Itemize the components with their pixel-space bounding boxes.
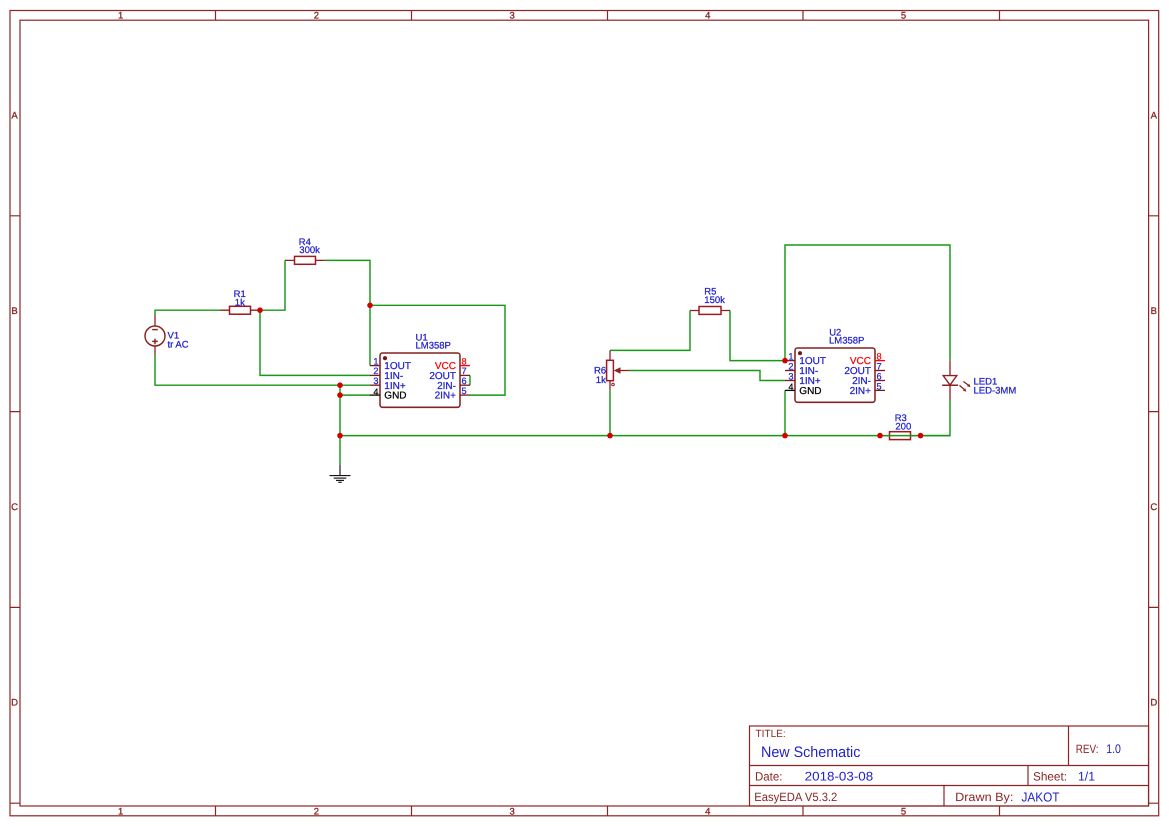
V1 name and value labels: [168, 330, 189, 350]
U2 pin 5 line: [875, 389, 885, 391]
R6 wiper arrowhead: [614, 367, 621, 373]
svg-text:A: A: [1151, 111, 1158, 122]
U2 pin 4 line: [785, 389, 795, 391]
node U2 pin4 bus: [782, 433, 788, 439]
svg-text:6: 6: [462, 376, 467, 386]
svg-text:1k: 1k: [596, 375, 606, 386]
svg-text:JAKOT: JAKOT: [1022, 790, 1060, 805]
svg-text:LM358P: LM358P: [416, 341, 451, 352]
svg-text:Date:: Date:: [755, 770, 782, 784]
wire R4 right to node: [325, 260, 370, 305]
wire LED top loop to U2 pin1: [785, 245, 950, 361]
wire R6 bottom to bus: [609, 390, 611, 435]
op-amp U2: [785, 348, 885, 402]
svg-text:2: 2: [373, 366, 378, 376]
svg-text:4: 4: [705, 806, 710, 817]
U1 pin 5 line: [460, 394, 470, 396]
svg-text:1: 1: [118, 11, 123, 22]
U2 pin numbers: [788, 351, 881, 392]
node U2 pin1: [782, 358, 788, 364]
wire U1 pin7 to pin6: [469, 375, 471, 385]
ground: [330, 465, 351, 482]
U1 pin 4 line: [370, 394, 380, 396]
svg-text:2IN+: 2IN+: [435, 391, 457, 402]
bottom ruler ticks: [216, 806, 1000, 816]
wire node to U1 pin5 loop: [370, 305, 505, 395]
svg-text:B: B: [11, 306, 17, 317]
U2 pin 1 line: [785, 360, 795, 362]
U2 pin 8 line: [875, 360, 885, 362]
wire R5 left to R6 top: [610, 311, 690, 351]
svg-text:1: 1: [788, 351, 793, 361]
wire bottom bus: [340, 435, 880, 437]
wire R1 junction down to U1 pin2: [260, 310, 370, 375]
node R6 bottom: [607, 433, 613, 439]
svg-text:Drawn By:: Drawn By:: [955, 790, 1013, 804]
svg-text:7: 7: [877, 361, 882, 371]
svg-text:7: 7: [462, 366, 467, 376]
U1 pin 6 line: [460, 384, 470, 386]
svg-text:3: 3: [509, 806, 514, 817]
svg-text:LED-3MM: LED-3MM: [974, 385, 1017, 396]
resistor R5: [690, 307, 730, 315]
svg-text:LM358P: LM358P: [829, 336, 864, 347]
svg-text:A: A: [11, 111, 18, 122]
U1 pin 3 line: [370, 384, 380, 386]
LED LED1: [942, 361, 968, 401]
svg-text:2: 2: [314, 806, 319, 817]
svg-text:New Schematic: New Schematic: [761, 744, 861, 761]
op-amp U1: [370, 353, 470, 407]
node pin4 tee: [337, 392, 343, 398]
svg-text:1k: 1k: [235, 298, 245, 309]
U1 pin 7 line: [460, 374, 470, 376]
svg-text:D: D: [11, 698, 18, 709]
svg-text:4: 4: [373, 387, 378, 397]
resistor R4: [285, 256, 325, 264]
svg-text:Sheet:: Sheet:: [1033, 770, 1067, 784]
U1 pin 2 line: [370, 374, 380, 376]
U2 pin 7 line: [875, 370, 885, 372]
svg-text:4: 4: [705, 11, 710, 22]
wire R5 right to U2 pin1: [730, 311, 785, 361]
U2 pin 6 line: [875, 380, 885, 382]
node R3 left: [877, 433, 883, 439]
svg-text:1/1: 1/1: [1078, 769, 1095, 783]
U1 pin name labels: [384, 361, 456, 402]
svg-text:1.0: 1.0: [1106, 742, 1121, 756]
svg-text:B: B: [1151, 306, 1157, 317]
svg-text:1: 1: [373, 356, 378, 366]
wire gnd vertical: [339, 385, 341, 465]
U2 pin 3 line: [785, 380, 795, 382]
LED arrow 1: [963, 382, 968, 386]
svg-text:1: 1: [118, 806, 123, 817]
LED1 name and value labels: [974, 376, 1017, 396]
svg-text:D: D: [1150, 698, 1157, 709]
node R1-right junction: [257, 307, 263, 313]
svg-text:2IN+: 2IN+: [850, 386, 872, 397]
svg-text:EasyEDA V5.3.2: EasyEDA V5.3.2: [754, 790, 837, 804]
U1 pin 1 line: [370, 365, 380, 367]
svg-text:3: 3: [373, 376, 378, 386]
svg-text:200: 200: [895, 422, 911, 433]
wire V1 top to R1: [155, 310, 220, 315]
R1 name and value labels: [234, 289, 246, 309]
wire R1 right to R4 left vertical: [260, 260, 285, 310]
U2 pin name labels: [799, 356, 871, 397]
wire node to U1 pin1: [369, 305, 371, 365]
svg-text:GND: GND: [384, 391, 406, 402]
svg-text:5: 5: [901, 11, 906, 22]
node R4-right junction: [367, 303, 373, 309]
svg-text:2: 2: [788, 361, 793, 371]
U2 pin 2 line: [785, 370, 795, 372]
svg-text:5: 5: [462, 386, 467, 396]
R4 name and value labels: [299, 237, 320, 256]
svg-text:C: C: [1150, 502, 1157, 513]
svg-text:2018-03-08: 2018-03-08: [805, 769, 874, 783]
svg-text:150k: 150k: [704, 295, 725, 306]
svg-text:8: 8: [877, 351, 882, 361]
U2 reference labels: [829, 328, 864, 347]
wire R3 right to LED bottom: [921, 401, 951, 436]
LED arrow 2: [960, 385, 965, 389]
svg-text:6: 6: [877, 371, 882, 381]
wire V1 bottom to U1 pin3: [155, 355, 370, 385]
resistor R1: [220, 306, 260, 314]
svg-text:GND: GND: [799, 386, 821, 397]
svg-text:tr AC: tr AC: [168, 339, 189, 350]
svg-text:5: 5: [901, 806, 906, 817]
svg-text:C: C: [11, 502, 18, 513]
U1 pin 8 line: [460, 365, 470, 367]
top ruler ticks: [216, 11, 1000, 21]
svg-text:300k: 300k: [299, 245, 320, 256]
voltage source V1: [145, 315, 165, 355]
svg-text:3: 3: [509, 11, 514, 22]
svg-text:8: 8: [462, 356, 467, 366]
svg-text:TITLE:: TITLE:: [756, 728, 786, 740]
U1 pin numbers: [373, 356, 466, 397]
R5 name and value labels: [704, 287, 725, 307]
title block: [750, 726, 1149, 806]
svg-text:REV:: REV:: [1076, 742, 1099, 756]
node R3 right: [918, 433, 924, 439]
svg-text:4: 4: [788, 382, 793, 392]
wire R6 wiper to U2 pin3: [630, 371, 786, 381]
U2 first pin marker: [798, 351, 802, 355]
right ruler ticks: [1149, 216, 1159, 803]
node bus left: [337, 433, 343, 439]
svg-text:2: 2: [314, 11, 319, 22]
wire bus overlay through R3: [880, 435, 950, 437]
svg-text:3: 3: [788, 371, 793, 381]
R3 name and value labels: [895, 413, 912, 433]
U1 first pin marker: [383, 356, 387, 360]
wire U2 pin4 to bus: [784, 390, 786, 435]
svg-text:5: 5: [877, 381, 882, 391]
R6 name and value labels: [594, 366, 606, 387]
resistor R3: [880, 432, 921, 440]
potentiometer R6: [607, 350, 630, 390]
node pin3 wire crossing: [337, 382, 343, 388]
U1 reference labels: [416, 332, 451, 351]
left ruler ticks: [10, 216, 20, 803]
wire to U1 pin4: [340, 394, 370, 396]
